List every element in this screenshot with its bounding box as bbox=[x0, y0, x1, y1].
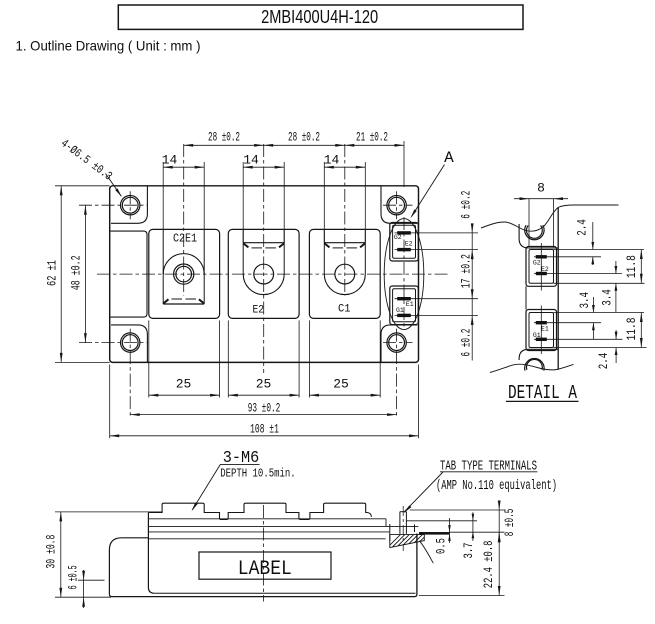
svg-text:3-M6: 3-M6 bbox=[223, 449, 260, 468]
svg-text:G2: G2 bbox=[533, 260, 541, 267]
svg-text:3.4: 3.4 bbox=[600, 289, 615, 306]
svg-text:11.8: 11.8 bbox=[624, 318, 639, 341]
svg-text:G1: G1 bbox=[533, 332, 541, 339]
svg-text:2.4: 2.4 bbox=[596, 353, 611, 370]
svg-text:14: 14 bbox=[243, 153, 259, 168]
svg-text:1. Outline Drawing ( Unit : mm: 1. Outline Drawing ( Unit : mm ) bbox=[16, 38, 201, 54]
svg-text:C2E1: C2E1 bbox=[173, 232, 197, 246]
svg-text:2MBI400U4H-120: 2MBI400U4H-120 bbox=[261, 6, 378, 27]
svg-text:0.5: 0.5 bbox=[434, 538, 449, 554]
svg-text:DEPTH 10.5min.: DEPTH 10.5min. bbox=[220, 467, 296, 480]
svg-text:108 ±1: 108 ±1 bbox=[250, 421, 279, 436]
svg-text:48 ±0.2: 48 ±0.2 bbox=[68, 255, 83, 290]
svg-text:8: 8 bbox=[537, 181, 545, 196]
svg-text:E2: E2 bbox=[405, 240, 413, 247]
svg-text:93 ±0.2: 93 ±0.2 bbox=[248, 401, 281, 416]
svg-text:C1: C1 bbox=[338, 304, 351, 316]
svg-text:22.4 ±0.8: 22.4 ±0.8 bbox=[481, 541, 496, 589]
svg-text:6 ±0.2: 6 ±0.2 bbox=[458, 329, 473, 357]
svg-text:25: 25 bbox=[176, 377, 192, 392]
svg-text:62 ±1: 62 ±1 bbox=[45, 260, 60, 286]
svg-text:E2: E2 bbox=[541, 266, 549, 273]
svg-text:E1: E1 bbox=[406, 301, 414, 308]
svg-text:E2: E2 bbox=[253, 305, 265, 317]
svg-text:3.7: 3.7 bbox=[461, 543, 476, 559]
svg-text:6 ±0.2: 6 ±0.2 bbox=[458, 191, 473, 219]
svg-text:17 ±0.2: 17 ±0.2 bbox=[458, 254, 473, 288]
svg-text:2.4: 2.4 bbox=[574, 219, 589, 236]
svg-text:G2: G2 bbox=[394, 234, 402, 241]
svg-text:30 ±0.8: 30 ±0.8 bbox=[44, 535, 59, 569]
svg-text:11.8: 11.8 bbox=[624, 255, 639, 278]
svg-text:A: A bbox=[444, 149, 454, 167]
svg-text:25: 25 bbox=[256, 377, 272, 392]
svg-text:28 ±0.2: 28 ±0.2 bbox=[208, 130, 240, 145]
svg-text:8 ±0.5: 8 ±0.5 bbox=[502, 509, 517, 537]
svg-text:LABEL: LABEL bbox=[238, 558, 292, 581]
svg-text:E1: E1 bbox=[541, 325, 549, 332]
svg-text:14: 14 bbox=[324, 153, 340, 168]
svg-text:14: 14 bbox=[162, 153, 178, 168]
svg-text:6 ±0.5: 6 ±0.5 bbox=[65, 565, 80, 589]
svg-text:G1: G1 bbox=[396, 307, 404, 314]
svg-text:21 ±0.2: 21 ±0.2 bbox=[356, 130, 388, 145]
svg-text:28 ±0.2: 28 ±0.2 bbox=[288, 130, 320, 145]
svg-text:(AMP No.110 equivalent): (AMP No.110 equivalent) bbox=[436, 479, 557, 494]
svg-text:3.4: 3.4 bbox=[577, 292, 592, 309]
svg-text:25: 25 bbox=[333, 377, 349, 392]
